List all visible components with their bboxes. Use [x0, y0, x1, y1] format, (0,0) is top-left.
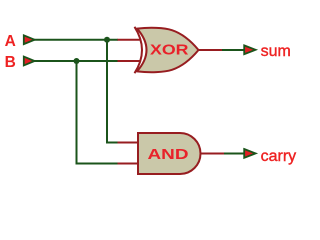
- XOR pin input bottom: [118, 60, 140, 62]
- wire B horizontal: [34, 60, 118, 62]
- XOR gate U1 body: [137, 28, 199, 72]
- input terminal arrow B: [24, 57, 35, 66]
- AND pin input bottom: [118, 163, 140, 165]
- node junction on A: [104, 37, 110, 43]
- wire A horizontal: [34, 39, 118, 41]
- wire B branch vertical: [77, 61, 118, 164]
- input terminal arrow A: [24, 35, 35, 44]
- output terminal arrow sum: [244, 45, 255, 54]
- output terminal arrow carry: [244, 149, 255, 158]
- svg-text:sum: sum: [261, 43, 291, 60]
- svg-text:B: B: [5, 54, 16, 71]
- wire A branch vertical: [107, 40, 118, 143]
- AND pin input top: [118, 142, 140, 144]
- XOR pin input top: [118, 39, 140, 41]
- svg-text:carry: carry: [261, 148, 297, 165]
- svg-text:XOR: XOR: [150, 43, 189, 59]
- XOR pin output: [197, 49, 224, 51]
- svg-text:AND: AND: [148, 147, 189, 163]
- AND gate U2 body: [138, 133, 200, 174]
- node junction on B: [74, 58, 80, 64]
- XOR gate U1 front arc: [135, 27, 143, 73]
- wire carry: [224, 153, 245, 155]
- AND pin output: [200, 153, 224, 155]
- svg-text:A: A: [5, 33, 16, 50]
- wire sum: [222, 49, 245, 51]
